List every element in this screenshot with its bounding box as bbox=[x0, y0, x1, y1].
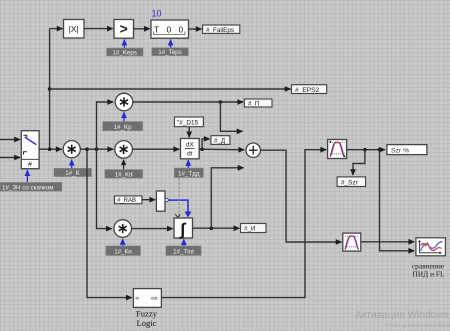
wire: integrator output to goto tag I bbox=[193, 227, 240, 229]
wire: branch up to Kp product bbox=[97, 102, 114, 149]
wire: derivative output to sum bbox=[199, 148, 244, 151]
svg-text:dt: dt bbox=[187, 151, 193, 158]
param chip 1#_Tint bbox=[166, 246, 201, 256]
product block Kd bbox=[115, 141, 133, 159]
wire: RAB to logic block bbox=[142, 199, 155, 201]
svg-text:1#_Тint: 1#_Тint bbox=[173, 248, 194, 255]
svg-text:dX: dX bbox=[186, 142, 195, 149]
wire: into abs block bbox=[50, 28, 63, 30]
goto tag #_P bbox=[244, 99, 272, 108]
blue arrow: Teps chip to timer block bbox=[170, 40, 172, 48]
wire: input 1 into manual switch bbox=[0, 139, 20, 141]
wire: branch up to goto tag D bbox=[202, 139, 210, 149]
from tag #_D15 bbox=[174, 117, 203, 127]
svg-text:1#_K: 1#_K bbox=[65, 170, 80, 177]
display block Szr % bbox=[387, 145, 427, 155]
svg-text:1#_ЗН со скачком: 1#_ЗН со скачком bbox=[2, 184, 54, 191]
svg-text:0: 0 bbox=[179, 25, 184, 35]
node: EPS2 branch junction bbox=[48, 87, 52, 91]
wire: branch down to scope input 2 bbox=[380, 150, 415, 251]
goto tag #_I bbox=[241, 224, 267, 233]
svg-text:#_П: #_П bbox=[248, 101, 259, 108]
blue arrow: Ki chip to Ki product bbox=[122, 239, 124, 246]
svg-text:>: > bbox=[120, 21, 128, 37]
saturation block 1 bbox=[328, 140, 347, 159]
wire: abs to relational operator bbox=[84, 28, 113, 30]
wire: sum output right, down, to saturation 2 bbox=[260, 150, 341, 242]
blue arrow: Tint chip to integrator bbox=[183, 239, 185, 245]
wire: branch down to Ki product bbox=[97, 149, 112, 228]
blue wire: NOT output to integrator reset port bbox=[168, 200, 188, 212]
logic NOT block bbox=[156, 191, 168, 211]
svg-text:in: in bbox=[136, 296, 140, 301]
goto tag #_FailEps bbox=[203, 25, 240, 34]
blue arrow: Keps chip to relational op bbox=[123, 40, 125, 48]
goto tag #_Szr bbox=[337, 177, 366, 187]
wire: branch down to fuzzy logic input bbox=[87, 149, 132, 297]
svg-text:"#_D15: "#_D15 bbox=[177, 120, 199, 127]
node: junction switch output / left trunk bbox=[48, 147, 52, 151]
svg-text:1#_Тдд: 1#_Тдд bbox=[178, 170, 200, 177]
wire: left vertical trunk from |X| input down to switch output junction bbox=[49, 29, 51, 150]
product block Kp bbox=[115, 93, 133, 111]
wire: fuzzy output right then up to saturation 1 bbox=[161, 150, 326, 298]
wire: relational op to timer block bbox=[134, 28, 150, 30]
wire: long wire to EPS2 goto tag bbox=[50, 88, 291, 90]
fuzzy logic subsystem block bbox=[133, 289, 161, 308]
param chip 1#_Keps bbox=[107, 48, 144, 56]
wire: Kp output to goto tag P bbox=[133, 101, 243, 103]
node: junction on integrator output bbox=[210, 226, 214, 230]
scope block (comparison PID and FL) bbox=[416, 238, 446, 256]
blue arrow: K chip to K product bbox=[71, 160, 73, 168]
svg-text:1#_Keps: 1#_Keps bbox=[112, 49, 136, 56]
param chip 1#_Kp bbox=[103, 122, 143, 131]
wire: Kd to derivative block bbox=[132, 148, 179, 150]
wire: D15 down into derivative block bbox=[188, 127, 190, 138]
wire: switch output to K product bbox=[39, 148, 62, 150]
sum block + bbox=[246, 143, 260, 157]
svg-text:1#_Ки: 1#_Ки bbox=[114, 248, 132, 255]
node: junction Szr tag branch bbox=[363, 148, 367, 152]
wire: branch up then east (floating arrow) bbox=[211, 168, 243, 228]
svg-text:T: T bbox=[154, 25, 159, 35]
goto tag #_EPS2 bbox=[292, 85, 327, 94]
svg-text:out: out bbox=[151, 296, 158, 301]
node: junction on derivative output bbox=[200, 147, 204, 151]
param chip 1#_Teps bbox=[152, 48, 189, 57]
goto tag #_D bbox=[211, 136, 230, 145]
abs block |X| bbox=[64, 20, 85, 39]
svg-text:#_RAB: #_RAB bbox=[117, 198, 136, 204]
svg-text:#_FailEps: #_FailEps bbox=[206, 27, 234, 34]
svg-text:Logic: Logic bbox=[136, 318, 156, 328]
svg-text:0: 0 bbox=[167, 25, 172, 35]
wire: saturation2 to scope input 1 bbox=[361, 241, 415, 243]
blue arrow: ZN chip to switch bbox=[26, 170, 28, 182]
svg-text:1#_Kd: 1#_Kd bbox=[115, 171, 133, 178]
svg-text:#_Szr: #_Szr bbox=[341, 180, 359, 187]
derivative block dX/dt bbox=[181, 139, 200, 159]
node: junction scope branch bbox=[378, 148, 382, 152]
param chip 1#_Ki bbox=[106, 246, 141, 256]
wire: input 2 into manual switch bbox=[0, 157, 20, 159]
param chip 1#_ZN so skachkom bbox=[0, 182, 62, 191]
node: junction on Kp wire bbox=[219, 100, 223, 104]
svg-text:Активация Windows: Активация Windows bbox=[355, 310, 449, 321]
svg-text:#_EPS2: #_EPS2 bbox=[295, 87, 320, 94]
saturation block 2 bbox=[343, 233, 361, 251]
svg-text:10: 10 bbox=[152, 9, 162, 19]
product block K (circle with asterisk) bbox=[63, 141, 80, 158]
wire: saturation1 to Szr display bbox=[347, 149, 385, 151]
svg-text:1#_Teps: 1#_Teps bbox=[158, 49, 181, 56]
black arrow: Kd chip to Kd product bbox=[123, 160, 125, 169]
wire: K product output east to Kd product bbox=[80, 148, 113, 150]
manual switch block bbox=[21, 131, 39, 169]
svg-text:#: # bbox=[28, 161, 32, 168]
svg-text:#_Д: #_Д bbox=[214, 138, 226, 145]
timer block T 0 0 bbox=[151, 20, 189, 38]
blue arrow: Tdd chip to derivative block bbox=[187, 160, 189, 168]
svg-text:Szr %: Szr % bbox=[391, 148, 409, 155]
param chip 1#_K bbox=[54, 168, 92, 177]
wire: branch down-left-down into goto tag Szr bbox=[353, 150, 365, 175]
integrator block bbox=[174, 214, 193, 239]
product block Ki bbox=[114, 220, 132, 238]
from tag #_RAB bbox=[115, 196, 142, 204]
svg-text:#_И: #_И bbox=[244, 226, 255, 233]
svg-text:|X|: |X| bbox=[69, 24, 79, 34]
svg-text:1#_Kp: 1#_Kp bbox=[114, 124, 132, 131]
blue arrow: Kp chip to Kp product bbox=[123, 112, 125, 121]
node: junction to Kp/Ki branch bbox=[95, 147, 99, 151]
param chip 1#_Kd bbox=[105, 170, 143, 179]
dashed line into integrator bbox=[178, 179, 180, 218]
wire: Ki product to integrator bbox=[132, 228, 173, 230]
relational operator block > bbox=[114, 20, 134, 39]
svg-text:ПИД и FL: ПИД и FL bbox=[413, 270, 445, 279]
svg-text:Чтобы активировать Windows, пе: Чтобы активировать Windows, перейдите в … bbox=[385, 322, 450, 329]
param chip 1#_Tdd bbox=[174, 168, 203, 178]
wire: timer to FailEps goto bbox=[189, 28, 202, 30]
wire: branch down then east (floating arrow) bbox=[220, 102, 242, 131]
node: junction to fuzzy branch bbox=[85, 147, 89, 151]
